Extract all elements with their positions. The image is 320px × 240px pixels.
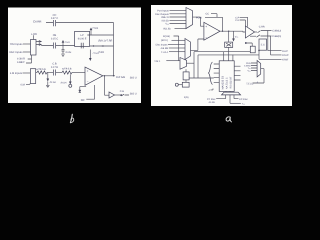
svg-text:L-RR: L-RR <box>31 33 37 36</box>
svg-text:7.5 E: 7.5 E <box>92 27 98 30</box>
svg-text:Vₒₙ: Vₒₙ <box>235 36 238 39</box>
svg-text:+: + <box>205 25 207 29</box>
svg-text:/7.5 E: /7.5 E <box>93 52 100 55</box>
svg-text:w/TR 5.B: w/TR 5.B <box>62 67 72 70</box>
svg-text:(R/9.1)*7.RR: (R/9.1)*7.RR <box>98 39 113 42</box>
svg-text:E.S: E.S <box>261 43 265 46</box>
svg-text:1-M Inputs: 1-M Inputs <box>10 72 23 75</box>
svg-text:4D RD: 4D RD <box>209 101 216 104</box>
svg-text:TO2 Inputs: TO2 Inputs <box>10 43 23 46</box>
svg-text:C.BB(D): C.BB(D) <box>272 35 281 38</box>
svg-text:w/TR 5.B: w/TR 5.B <box>36 68 46 71</box>
svg-text:0.17 E: 0.17 E <box>51 66 59 69</box>
svg-text:CC: CC <box>206 13 210 16</box>
svg-text:SIG U: SIG U <box>130 93 137 96</box>
svg-text:/9.2H: /9.2H <box>66 51 72 54</box>
svg-text:94.00 E: 94.00 E <box>78 37 87 40</box>
svg-text:4-B RR: 4-B RR <box>160 47 168 50</box>
svg-text:(R2 E): (R2 E) <box>161 39 168 42</box>
svg-text:4(N): 4(N) <box>184 96 189 99</box>
svg-text:POW: POW <box>196 16 202 19</box>
svg-text:Tₛₛ: Tₛₛ <box>242 103 245 106</box>
svg-text:7.5 E: 7.5 E <box>65 41 71 44</box>
svg-text:R(1.B): R(1.B) <box>164 27 171 30</box>
svg-text:+: + <box>87 69 89 73</box>
svg-text:RS-232 BT: RS-232 BT <box>229 76 232 88</box>
svg-text:AT-BT: AT-BT <box>282 58 289 61</box>
svg-text:O-P A/B: O-P A/B <box>116 76 125 79</box>
svg-text:/9.1H: /9.1H <box>61 81 67 84</box>
svg-text:AT-UP: AT-UP <box>282 54 289 57</box>
svg-text:O-UP: O-UP <box>282 50 288 53</box>
svg-text:4-BB F: 4-BB F <box>17 61 25 64</box>
svg-text:SIG U: SIG U <box>130 77 137 80</box>
svg-text:Vₛₛ: Vₛₛ <box>248 69 251 72</box>
svg-text:C4 RR: C4 RR <box>33 20 41 24</box>
svg-text:0.15 C: 0.15 C <box>51 37 59 40</box>
svg-text:R(1.B): R(1.B) <box>163 35 170 38</box>
svg-text:C.BB(U): C.BB(U) <box>272 30 281 33</box>
svg-text:C.K: C.K <box>235 19 239 22</box>
svg-text:T-AA 1: T-AA 1 <box>161 51 169 54</box>
svg-text:0.47 C: 0.47 C <box>51 17 59 20</box>
svg-text:T-M 1: T-M 1 <box>154 60 161 63</box>
svg-text:T.E (1): T.E (1) <box>246 83 253 86</box>
svg-text:/9.1H: /9.1H <box>50 81 56 84</box>
svg-text:0.M: 0.M <box>21 83 25 86</box>
svg-text:C.RR: C.RR <box>259 26 265 29</box>
svg-text:NA 7312 C: NA 7312 C <box>225 77 228 89</box>
svg-text:EC Elec: EC Elec <box>239 98 248 101</box>
svg-text:REF Inputs: REF Inputs <box>10 51 24 54</box>
svg-text:−: − <box>205 36 207 40</box>
svg-text:CT Elec: CT Elec <box>207 98 216 101</box>
svg-text:−: − <box>87 80 89 84</box>
svg-text:RR: RR <box>81 99 85 102</box>
svg-text:MAX233 EB: MAX233 EB <box>221 76 224 90</box>
svg-text:C.P: C.P <box>235 16 239 19</box>
svg-text:V₂₂: V₂₂ <box>165 23 169 26</box>
svg-text:C.B: C.B <box>120 90 124 93</box>
